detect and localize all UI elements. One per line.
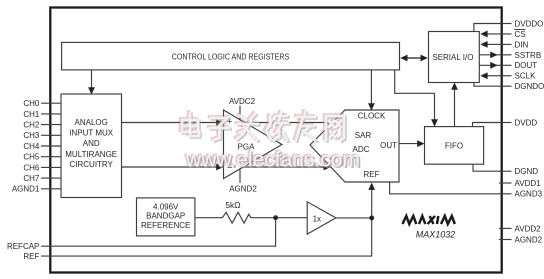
wire din	[486, 43, 502, 45]
pin stub din	[503, 43, 512, 45]
chip outer border MAX1032	[50, 8, 501, 273]
svg-text:CH3: CH3	[23, 131, 40, 140]
svg-text:OUT: OUT	[380, 141, 397, 150]
pin stub agnd2	[499, 239, 512, 241]
sar adc polygon	[310, 110, 399, 182]
svg-text:4.096V: 4.096V	[153, 203, 179, 212]
wire ch1	[41, 113, 61, 115]
wire ch7	[41, 177, 61, 179]
arrowhead clock into adc	[368, 103, 375, 110]
wire dvdd bracket	[473, 123, 502, 127]
arrowhead sclk	[480, 72, 487, 79]
wire ch5	[41, 156, 61, 158]
wire dgnd bracket	[473, 164, 502, 171]
pin stub dvddo	[503, 23, 512, 25]
svg-text:REF: REF	[23, 252, 39, 261]
serial io box	[429, 32, 480, 83]
arrowhead control to mux	[88, 87, 95, 94]
svg-text:FIFO: FIFO	[445, 141, 463, 150]
arrowhead fifo to serial	[451, 83, 458, 90]
wire buffer out to node	[336, 217, 372, 219]
pin stub avdd2	[499, 227, 512, 229]
svg-text:DGND: DGND	[515, 167, 539, 176]
pin stub dgnd	[503, 170, 512, 172]
wire avdc2 stub	[239, 106, 241, 120]
pga triangle	[224, 110, 283, 179]
watermark url	[184, 148, 362, 173]
wire dvddo bracket	[474, 24, 502, 32]
arrowhead sstrb	[490, 51, 497, 58]
svg-text:AVDD2: AVDD2	[515, 224, 542, 233]
svg-text:BANDGAP: BANDGAP	[146, 212, 185, 221]
svg-text:CONTROL LOGIC AND REGISTERS: CONTROL LOGIC AND REGISTERS	[172, 52, 290, 61]
svg-text:SSTRB: SSTRB	[515, 51, 542, 60]
node refcap junction	[273, 215, 278, 220]
svg-text:REFCAP: REFCAP	[7, 242, 39, 251]
pin stub agnd3	[503, 193, 512, 195]
svg-text:CH0: CH0	[23, 99, 40, 108]
svg-text:5kΩ: 5kΩ	[225, 200, 240, 210]
wire ref	[41, 218, 372, 256]
arrowhead pga-adc lower	[324, 164, 331, 171]
wire sclk	[486, 75, 502, 77]
svg-text:AGND2: AGND2	[515, 235, 543, 244]
wire ch3	[41, 134, 61, 136]
double arrow control-serial	[402, 57, 426, 59]
svg-text:AGND3: AGND3	[515, 190, 543, 199]
svg-text:DOUT: DOUT	[515, 61, 538, 70]
svg-text:DIN: DIN	[515, 40, 529, 49]
svg-text:CH5: CH5	[23, 153, 40, 162]
arrowhead mux-pga upper	[216, 119, 223, 126]
wire refcap	[41, 218, 276, 247]
wire clock line	[370, 70, 372, 105]
svg-text:AND: AND	[83, 139, 100, 148]
wire sstrb	[479, 54, 501, 56]
pin stub sstrb	[503, 54, 512, 56]
wire pga to adc upper	[244, 122, 327, 124]
wire ch0	[41, 102, 61, 104]
pin stub dout	[503, 64, 512, 66]
arrowhead dout	[490, 62, 497, 69]
svg-text:AGND1: AGND1	[12, 185, 40, 194]
svg-text:CH4: CH4	[23, 142, 40, 151]
wire ref node up to adc	[371, 188, 373, 218]
right pin labels	[514, 19, 544, 244]
node ref junction	[369, 216, 374, 221]
arrowhead ref into adc	[368, 183, 375, 190]
wire adc out to fifo	[399, 143, 419, 145]
wire control bus to fifo	[395, 70, 435, 121]
pin stub cs	[503, 33, 512, 35]
maxim logo	[403, 216, 455, 224]
wire ch2	[41, 124, 61, 126]
analog input mux box	[61, 94, 122, 198]
svg-text:SCLK: SCLK	[515, 72, 537, 81]
svg-text:REF: REF	[364, 170, 380, 179]
wire dout	[479, 64, 501, 66]
svg-text:SERIAL I/O: SERIAL I/O	[432, 53, 473, 62]
arrowhead bus into fifo	[431, 119, 438, 126]
wire cs	[486, 33, 502, 35]
svg-text:AGND2: AGND2	[229, 184, 257, 193]
bandgap reference box	[137, 198, 195, 236]
svg-text:INPUT MUX: INPUT MUX	[69, 128, 114, 137]
svg-text:www.elecfans.com: www.elecfans.com	[185, 149, 360, 172]
svg-text:MAX1032: MAX1032	[416, 230, 456, 240]
svg-text:ANALOG: ANALOG	[75, 118, 108, 127]
text block labels	[65, 52, 473, 230]
svg-text:AVDC2: AVDC2	[229, 97, 256, 106]
wire pga to adc lower	[243, 166, 325, 168]
pin stub sclk	[503, 75, 512, 77]
wire resistor to node	[251, 217, 307, 219]
arrowhead mux-pga lower	[216, 164, 223, 171]
pin stub dgndo	[503, 85, 512, 87]
pin stub dvdd	[503, 122, 512, 124]
svg-text:MULTIRANGE: MULTIRANGE	[65, 150, 117, 159]
svg-text:CH1: CH1	[23, 110, 40, 119]
svg-text:CIRCUITRY: CIRCUITRY	[69, 160, 113, 169]
svg-text:CH2: CH2	[23, 121, 40, 130]
svg-text:DVDDO: DVDDO	[515, 19, 544, 28]
arrowhead din	[480, 41, 487, 48]
wire mux to pga upper	[122, 122, 219, 124]
wire fifo to serial	[454, 89, 456, 127]
wire control to mux arrow	[91, 70, 93, 89]
svg-text:DVDD: DVDD	[515, 118, 538, 127]
svg-text:CLOCK: CLOCK	[358, 111, 386, 120]
wire ch4	[41, 145, 61, 147]
fifo box	[425, 127, 484, 165]
wire ch6	[41, 166, 61, 168]
svg-text:CH6: CH6	[23, 163, 40, 172]
svg-text:DGNDO: DGNDO	[515, 82, 544, 91]
wire dgndo bracket	[474, 83, 502, 87]
svg-text:REFERENCE: REFERENCE	[141, 221, 190, 230]
arrowhead cs	[480, 31, 487, 38]
wire bandgap to resistor	[195, 217, 220, 219]
control logic box	[62, 42, 400, 70]
pin stub avdd1	[499, 182, 512, 184]
wire agnd2 stub	[239, 169, 241, 183]
arrowhead pga-adc upper	[325, 119, 332, 126]
svg-text:AVDD1: AVDD1	[515, 179, 542, 188]
1x buffer triangle	[307, 202, 336, 234]
svg-text:CH7: CH7	[23, 174, 40, 183]
svg-text:1x: 1x	[313, 215, 321, 224]
wire agnd3	[390, 182, 502, 194]
svg-text:CS: CS	[515, 30, 526, 39]
svg-text:SAR: SAR	[355, 131, 372, 140]
wire agnd1	[41, 188, 61, 190]
resistor 5k zigzag	[219, 212, 250, 223]
cs overline	[514, 29, 525, 31]
arrowhead adc out to fifo	[417, 140, 424, 147]
wire mux to pga lower	[122, 166, 219, 168]
left pin labels	[7, 99, 40, 261]
